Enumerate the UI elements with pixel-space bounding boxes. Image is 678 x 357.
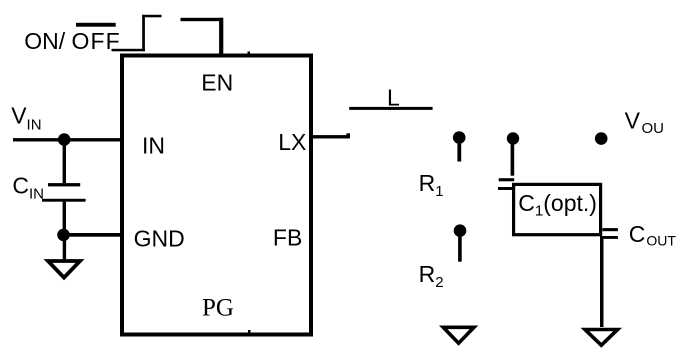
R2 terminal dot (454, 224, 467, 237)
pin tick bottom PG (248, 330, 251, 333)
output wire down (600, 236, 604, 327)
IC box U1 (122, 56, 311, 335)
C1 top dot (507, 132, 519, 144)
junction dot GND node (57, 229, 70, 242)
wire GND pin (64, 233, 123, 237)
VOU dot (595, 132, 608, 145)
svg-text:FB: FB (273, 225, 302, 251)
wire C1 top (511, 139, 515, 176)
ground 1 symbol (48, 261, 80, 278)
wire to EN pin vertical (219, 18, 223, 57)
ground 1 stem (63, 235, 66, 259)
wire VIN input (13, 138, 122, 141)
capacitor COUT plate 1 (602, 228, 618, 231)
svg-text:PG: PG (202, 295, 234, 322)
wire to EN pin horizontal (181, 18, 224, 21)
R2 stub (458, 233, 462, 262)
svg-text:ON/: ON/ (24, 28, 66, 54)
pin tick top EN (248, 52, 251, 54)
capacitor CIN top plate (48, 183, 80, 186)
wire LX pin (311, 135, 350, 138)
svg-text:IN: IN (142, 133, 165, 159)
inductor L bar (349, 107, 432, 110)
svg-text:GND: GND (134, 225, 185, 251)
C1 box (514, 184, 601, 234)
ground 2 symbol (443, 327, 474, 343)
wire LX end stub (346, 133, 350, 138)
junction dot VIN node (58, 133, 71, 146)
step waveform rising edge (142, 15, 145, 51)
svg-text:LX: LX (278, 129, 306, 155)
capacitor C1 plate 2 (498, 187, 514, 190)
wire CIN bottom (63, 202, 66, 237)
overline over OFF (76, 23, 116, 27)
capacitor C1 plate 1 (499, 178, 515, 181)
svg-text:L: L (387, 84, 400, 110)
step waveform high level (142, 15, 161, 17)
svg-text:C1(opt.): C1(opt.) (518, 190, 597, 220)
capacitor COUT plate 2 (602, 236, 618, 239)
ground 3 symbol (585, 330, 618, 346)
R1 stub (457, 140, 461, 162)
step waveform low level (112, 49, 146, 52)
capacitor CIN bottom plate (42, 199, 86, 202)
svg-text:EN: EN (201, 70, 233, 96)
wire CIN top (63, 139, 66, 183)
R1 terminal dot (453, 131, 466, 144)
